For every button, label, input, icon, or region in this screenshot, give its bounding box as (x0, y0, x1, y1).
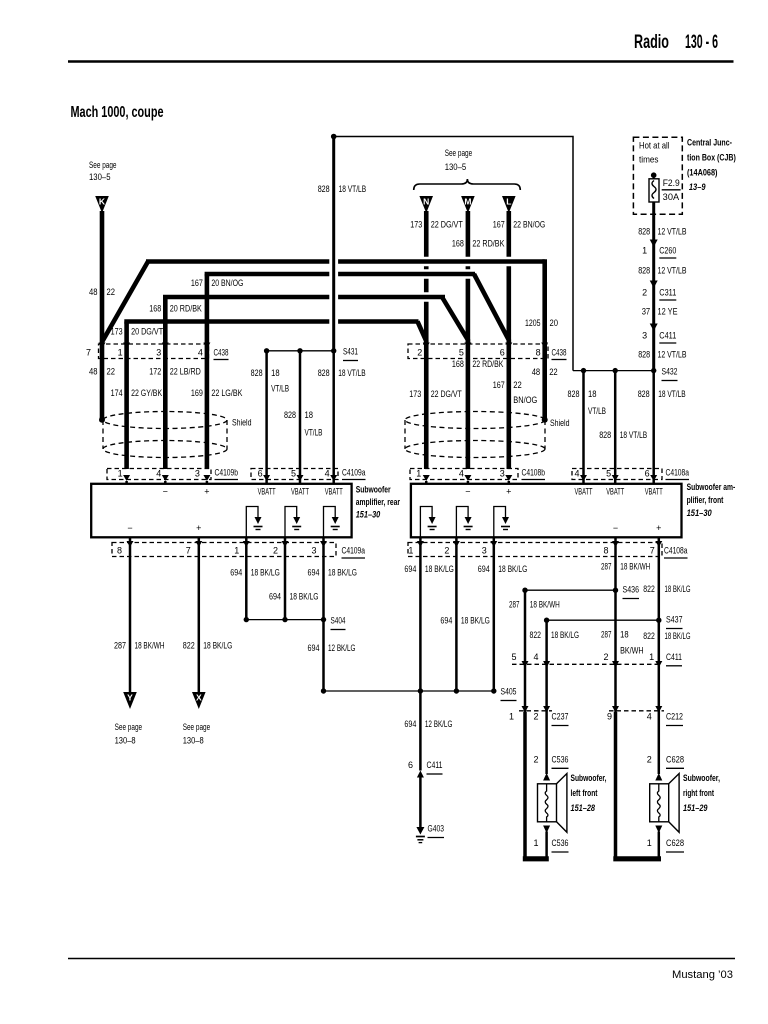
svg-text:3: 3 (195, 469, 200, 479)
svg-text:18: 18 (620, 630, 629, 640)
wire 694 12 BK/LG (S405 to G403) (404, 691, 452, 771)
svg-text:7: 7 (186, 546, 191, 556)
svg-text:12 VT/LB: 12 VT/LB (658, 350, 687, 360)
svg-text:1: 1 (416, 469, 421, 479)
svg-text:12 YE: 12 YE (658, 307, 678, 317)
wire 828 18 VT/LB (S432 to C4108a pin 6) (638, 371, 686, 481)
svg-text:18: 18 (305, 410, 314, 420)
amplifier front internal ground hook 3 (494, 507, 510, 538)
svg-text:18 BK/LG: 18 BK/LG (551, 630, 579, 640)
svg-text:3: 3 (642, 331, 647, 341)
svg-text:130–5: 130–5 (445, 162, 467, 172)
svg-text:C438: C438 (214, 348, 229, 358)
svg-text:130–8: 130–8 (183, 736, 204, 746)
svg-text:1: 1 (118, 469, 123, 479)
svg-text:287: 287 (601, 562, 612, 572)
connector C411 (ground leg) (408, 760, 443, 778)
wire 287 18 BK/WH (S436 to C411 pin 2) (601, 590, 644, 667)
svg-text:22 RD/BK: 22 RD/BK (472, 239, 504, 249)
svg-text:See page: See page (445, 148, 473, 158)
svg-text:2: 2 (444, 546, 449, 556)
svg-text:4: 4 (198, 348, 203, 358)
svg-text:18: 18 (271, 368, 280, 378)
svg-text:−: − (163, 487, 168, 497)
svg-text:VT/LB: VT/LB (271, 384, 289, 394)
svg-text:694: 694 (308, 643, 320, 653)
svg-text:Subwoofer am-: Subwoofer am- (687, 482, 736, 492)
ground G403 (416, 824, 444, 843)
svg-text:6: 6 (408, 760, 413, 770)
splice S405 (321, 687, 517, 701)
svg-text:2: 2 (417, 348, 422, 358)
svg-text:C536: C536 (552, 838, 569, 848)
svg-text:S431: S431 (343, 347, 358, 357)
svg-text:12 BK/LG: 12 BK/LG (328, 643, 356, 653)
svg-text:167: 167 (191, 278, 203, 288)
header title Radio 130-6 (634, 32, 718, 53)
svg-text:18 BK/WH: 18 BK/WH (135, 641, 165, 651)
wire bus C (168 20 RD/BK) (149, 297, 468, 344)
svg-text:6: 6 (258, 469, 263, 479)
connector C438 right box (408, 344, 567, 360)
svg-text:Mustang ’03: Mustang ’03 (672, 969, 733, 981)
shield right cylinder (405, 412, 570, 458)
svg-text:C411: C411 (659, 331, 676, 341)
svg-text:6: 6 (645, 469, 650, 479)
svg-text:3: 3 (500, 469, 505, 479)
wire 828 18 VT/LB (S431 to C4109a pin 5) (284, 351, 323, 481)
connector C628 pin 2 arrow (up) (655, 773, 662, 781)
wire 828 18 VT/LB main (to S431) (318, 137, 366, 351)
svg-text:828: 828 (638, 350, 650, 360)
svg-text:3: 3 (156, 348, 161, 358)
connector arrows into C4109b (123, 475, 210, 481)
connector arrow N (419, 196, 433, 213)
svg-text:C212: C212 (666, 712, 683, 722)
connector arrows into C4109a bottom (127, 541, 328, 547)
svg-text:+: + (196, 523, 201, 533)
connector C438 left box (86, 344, 229, 360)
wire 48 22 shield drain (left) (89, 344, 115, 422)
svg-text:20 BN/OG: 20 BN/OG (211, 278, 243, 288)
svg-text:20 RD/BK: 20 RD/BK (170, 304, 202, 314)
svg-text:C4109b: C4109b (215, 468, 239, 478)
svg-text:828: 828 (284, 410, 296, 420)
svg-text:C536: C536 (552, 755, 569, 765)
svg-text:130–8: 130–8 (115, 736, 136, 746)
wire 694 18 BK/LG (front pin 2 to S405) (440, 537, 490, 691)
svg-text:S437: S437 (666, 615, 683, 625)
svg-text:M: M (464, 197, 471, 207)
svg-text:828: 828 (638, 266, 650, 276)
svg-text:173: 173 (410, 220, 422, 230)
svg-text:18 VT/LB: 18 VT/LB (620, 430, 648, 440)
svg-text:+: + (506, 487, 511, 497)
svg-text:167: 167 (493, 380, 505, 390)
connector C212 (607, 706, 683, 726)
wire return loop left speaker (523, 712, 549, 861)
svg-text:X: X (196, 693, 202, 703)
op-amp box: subwoofer amplifier front (411, 484, 682, 538)
svg-text:−: − (613, 523, 618, 533)
connector C311 (642, 281, 676, 301)
svg-text:VBATT: VBATT (258, 487, 276, 497)
svg-text:C4109a: C4109a (342, 468, 366, 478)
svg-text:1: 1 (642, 246, 647, 256)
svg-text:plifier, front: plifier, front (687, 495, 724, 505)
amplifier front internal ground hook 2 (456, 507, 472, 538)
connector C628 pin 1 arrow (down) (647, 826, 684, 853)
wire 694 18 BK/LG (front pin 1 to S405) (404, 537, 454, 691)
connector C4108b box (410, 468, 545, 480)
svg-text:G403: G403 (428, 824, 445, 834)
svg-text:2: 2 (603, 652, 608, 662)
svg-text:1205: 1205 (525, 318, 541, 328)
svg-text:151–30: 151–30 (356, 510, 381, 520)
svg-text:+: + (656, 523, 661, 533)
connector C4109a box (bottom) (112, 543, 365, 559)
svg-text:30A: 30A (663, 192, 679, 202)
svg-text:151–29: 151–29 (683, 803, 708, 813)
wire 287 18 BK/WH (pin 8 to Y) (114, 537, 165, 694)
svg-text:828: 828 (251, 368, 263, 378)
svg-text:48: 48 (89, 367, 98, 377)
see page 130-5 label (center) (445, 148, 473, 172)
svg-text:22 LB/RD: 22 LB/RD (170, 367, 201, 377)
svg-text:18 BK/LG: 18 BK/LG (665, 631, 691, 641)
wire 822 18 BK/LG (front pin 7 to S437) (643, 537, 690, 620)
svg-text:828: 828 (638, 389, 650, 399)
svg-text:2: 2 (533, 712, 538, 722)
svg-text:times: times (639, 155, 659, 165)
wire 828 18 VT/LB (S431 to C4109a pin 6) (251, 351, 290, 481)
splice S404 (244, 616, 346, 630)
svg-text:8: 8 (117, 546, 122, 556)
svg-text:−: − (465, 487, 470, 497)
caption subwoofer amplifier front (687, 482, 736, 518)
connector C536 pin 1 arrow (down) (533, 826, 568, 853)
connector arrow L (502, 196, 516, 213)
svg-text:22: 22 (549, 367, 558, 377)
Central Junction Box dashed box (633, 137, 682, 214)
connector C411 row (amp outputs) (511, 652, 682, 666)
wire bus A diagonal (pin7 to bus) (102, 262, 148, 343)
svg-text:8: 8 (603, 546, 608, 556)
caption subwoofer left front (571, 773, 607, 813)
svg-text:4: 4 (459, 469, 464, 479)
svg-text:12 BK/LG: 12 BK/LG (425, 719, 453, 729)
svg-text:18 BK/LG: 18 BK/LG (665, 584, 691, 594)
svg-text:694: 694 (269, 592, 281, 602)
svg-text:12 VT/LB: 12 VT/LB (658, 227, 687, 237)
svg-text:Y: Y (127, 693, 133, 703)
svg-text:22: 22 (107, 367, 116, 377)
CJB caption (687, 138, 736, 193)
svg-text:F2.9: F2.9 (663, 178, 680, 188)
wire 167 22 BN/OG (L to C438-right pin 6) (493, 211, 546, 344)
svg-text:Subwoofer: Subwoofer (356, 485, 391, 495)
splice S431 (264, 347, 358, 361)
svg-text:6: 6 (500, 348, 505, 358)
svg-text:18 BK/LG: 18 BK/LG (290, 592, 319, 602)
amplifier rear internal ground hook 3 (324, 507, 340, 538)
svg-text:22 DG/VT: 22 DG/VT (431, 389, 462, 399)
svg-text:5: 5 (459, 348, 464, 358)
amplifier rear internal ground hook 2 (285, 507, 301, 538)
wire 169 22 LG/BK (191, 344, 243, 469)
svg-text:VBATT: VBATT (606, 487, 624, 497)
svg-text:BK/WH: BK/WH (620, 646, 644, 656)
connector C411 (CJB chain) (642, 324, 676, 344)
node junction at top of 828 wire (331, 134, 337, 140)
svg-text:VBATT: VBATT (325, 487, 343, 497)
svg-text:C411: C411 (427, 760, 443, 770)
svg-text:left front: left front (571, 788, 598, 798)
wire 168 22 RD/BK (M to C438-right pin 5) (452, 211, 505, 344)
svg-text:VBATT: VBATT (291, 487, 309, 497)
wire 694 18 BK/LG (front pin 3 to S405) (478, 537, 528, 691)
svg-text:C628: C628 (666, 838, 684, 848)
svg-text:BN/OG: BN/OG (513, 395, 537, 405)
footer rule (68, 958, 735, 960)
svg-text:172: 172 (149, 367, 161, 377)
svg-text:5: 5 (291, 469, 296, 479)
svg-text:Shield: Shield (550, 418, 570, 428)
svg-text:4: 4 (574, 469, 579, 479)
wire 694 18 BK/LG (rear pin 1 to S404) (230, 537, 279, 620)
wire (C411 to G403) (419, 776, 422, 827)
connector arrow X (183, 692, 211, 746)
svg-text:18 BK/WH: 18 BK/WH (620, 562, 650, 572)
shield left cylinder (99, 412, 252, 458)
svg-text:Radio: Radio (634, 32, 669, 53)
speaker subwoofer right front (650, 774, 679, 833)
splice S432 (573, 367, 678, 381)
svg-text:828: 828 (318, 184, 330, 194)
svg-text:18 VT/LB: 18 VT/LB (339, 184, 367, 194)
connector arrows into C438 right (423, 343, 548, 349)
splice S436 (522, 585, 639, 599)
svg-text:2: 2 (273, 546, 278, 556)
svg-text:See page: See page (89, 160, 117, 170)
svg-text:2: 2 (642, 288, 647, 298)
svg-text:22 RD/BK: 22 RD/BK (472, 359, 503, 369)
svg-text:18 BK/LG: 18 BK/LG (203, 641, 232, 651)
node K see-page label (89, 160, 117, 182)
svg-text:4: 4 (533, 652, 538, 662)
svg-text:1: 1 (234, 546, 239, 556)
svg-text:Hot at all: Hot at all (639, 141, 670, 151)
svg-text:VBATT: VBATT (575, 487, 593, 497)
svg-text:18 BK/LG: 18 BK/LG (461, 616, 490, 626)
svg-text:167: 167 (493, 220, 505, 230)
svg-text:5: 5 (606, 469, 611, 479)
svg-text:1: 1 (118, 348, 123, 358)
svg-text:48: 48 (89, 287, 98, 297)
wire right speaker feed + (C411 pin 2 down) (614, 667, 617, 712)
svg-text:174: 174 (111, 388, 123, 398)
svg-text:S436: S436 (623, 585, 640, 595)
connector C260 (642, 240, 676, 259)
svg-text:694: 694 (404, 719, 416, 729)
svg-text:C237: C237 (552, 712, 569, 722)
svg-text:828: 828 (568, 389, 580, 399)
svg-text:C311: C311 (659, 288, 676, 298)
splice S437 (544, 615, 683, 629)
wire 37 12 YE (C311 to C411) (642, 288, 678, 331)
svg-text:Subwoofer,: Subwoofer, (571, 773, 607, 783)
svg-text:18 VT/LB: 18 VT/LB (338, 368, 366, 378)
fuse F2.9 30A (649, 172, 681, 214)
svg-text:4: 4 (156, 469, 161, 479)
wire 694 18 BK/LG (rear pin 2 to S404) (269, 537, 319, 620)
svg-text:VT/LB: VT/LB (588, 406, 606, 416)
wire bus A horizontal (circuit 1205) (146, 259, 329, 264)
svg-text:22: 22 (107, 287, 116, 297)
svg-text:VBATT: VBATT (645, 487, 663, 497)
svg-text:12 VT/LB: 12 VT/LB (658, 266, 687, 276)
svg-text:2: 2 (533, 755, 538, 765)
speaker subwoofer left front (538, 774, 567, 833)
svg-text:822: 822 (643, 631, 655, 641)
svg-text:694: 694 (308, 568, 320, 578)
connector arrows through C411 row (522, 661, 663, 668)
wire 48 22 shield drain (right) (532, 344, 558, 422)
op-amp box: subwoofer amplifier rear (91, 484, 351, 538)
wire 287 18 BK/WH (front pin 8 to S436) (601, 537, 650, 590)
caption subwoofer amplifier rear (356, 485, 401, 520)
wire 48 22 (K to C438-left pin 7) (89, 211, 115, 344)
svg-text:18 BK/LG: 18 BK/LG (328, 568, 357, 578)
wire 168 22 RD/BK (below C438-right) (452, 344, 504, 469)
svg-text:18: 18 (588, 389, 597, 399)
svg-text:1: 1 (649, 652, 654, 662)
svg-text:18 BK/WH: 18 BK/WH (530, 600, 560, 610)
svg-text:7: 7 (86, 348, 91, 358)
header rule (68, 60, 734, 62)
wire 828 18 VT/LB (S431 to C4109a pin 4) (318, 351, 366, 481)
wire 822 18 BK/LG (pin 7 to X) (183, 537, 233, 694)
svg-text:Central Junc-: Central Junc- (687, 138, 732, 148)
svg-text:S405: S405 (501, 687, 517, 697)
svg-text:18 BK/LG: 18 BK/LG (498, 564, 527, 574)
svg-text:22 LG/BK: 22 LG/BK (211, 388, 242, 398)
svg-text:22: 22 (513, 380, 522, 390)
brace over N M L (414, 179, 521, 190)
svg-text:See page: See page (183, 722, 211, 732)
wire 828 18 VT/LB (S432 to C4108a pin 5) (599, 371, 647, 481)
svg-text:22 BN/OG: 22 BN/OG (513, 220, 545, 230)
svg-text:S404: S404 (331, 616, 346, 626)
svg-text:C411: C411 (666, 652, 682, 662)
connector C4108a box (bottom) (408, 543, 688, 559)
wire 167 22 BN/OG (below C438-right) (493, 344, 538, 469)
wire 828 12 VT/LB (CJB to C260) (638, 214, 686, 246)
connector C536 pin 2 arrow (up) (543, 773, 550, 781)
svg-text:694: 694 (230, 568, 242, 578)
wire link S431 to S432 (top thin line) (334, 137, 573, 371)
caption subwoofer right front (683, 773, 720, 813)
svg-text:C4108a: C4108a (666, 468, 690, 478)
svg-text:130–5: 130–5 (89, 172, 111, 182)
connector arrow Y (115, 692, 143, 746)
svg-text:173: 173 (409, 389, 421, 399)
svg-text:822: 822 (183, 641, 195, 651)
svg-text:20: 20 (550, 318, 559, 328)
svg-text:1: 1 (408, 546, 413, 556)
wire 173 22 DG/VT (N to C438-right pin 2) (410, 211, 463, 344)
svg-text:828: 828 (638, 227, 650, 237)
wire 822 18 BK/LG (S437 to C411 pin 4) (530, 620, 580, 667)
svg-text:168: 168 (452, 359, 464, 369)
wire return loop right speaker (613, 712, 661, 861)
wire 828 12 VT/LB (C411 to S432) (638, 331, 686, 371)
svg-text:C438: C438 (552, 348, 567, 358)
svg-text:8: 8 (536, 348, 541, 358)
wire 173 22 DG/VT (below C438-right) (409, 344, 462, 469)
svg-text:822: 822 (643, 584, 655, 594)
svg-text:694: 694 (404, 564, 416, 574)
svg-text:48: 48 (532, 367, 541, 377)
svg-text:1: 1 (533, 838, 538, 848)
wire 828 12 VT/LB (C260 to C311) (638, 247, 686, 288)
svg-text:287: 287 (114, 641, 126, 651)
svg-text:5: 5 (511, 652, 516, 662)
connector C237 (509, 706, 569, 726)
svg-text:right front: right front (683, 788, 714, 798)
svg-text:20 DG/VT: 20 DG/VT (131, 327, 163, 337)
connector arrow K (95, 196, 109, 213)
svg-text:130 - 6: 130 - 6 (685, 32, 718, 53)
svg-text:C4108a: C4108a (664, 546, 688, 556)
svg-text:C4108b: C4108b (522, 468, 546, 478)
wire 174 22 GY/BK (111, 344, 163, 469)
wire 287 18 BK/WH (S436 to C411 pin 5) (509, 590, 560, 667)
svg-text:18 BK/LG: 18 BK/LG (425, 564, 454, 574)
svg-text:Shield: Shield (232, 418, 252, 428)
svg-text:37: 37 (642, 307, 651, 317)
svg-text:173: 173 (111, 327, 123, 337)
svg-text:151–30: 151–30 (687, 508, 712, 518)
svg-text:VT/LB: VT/LB (305, 428, 323, 438)
svg-text:3: 3 (482, 546, 487, 556)
svg-text:S432: S432 (662, 367, 678, 377)
wire bus A right drop to C438-right pin 8 (525, 259, 558, 344)
wire (C212 to subwoofer RF, + side) (647, 712, 684, 774)
svg-text:828: 828 (318, 368, 330, 378)
connector C4108a box (top) (572, 468, 689, 480)
svg-text:Subwoofer,: Subwoofer, (683, 773, 720, 783)
svg-text:+: + (204, 487, 209, 497)
wire 694 18 BK/LG (rear pin 3 to S404) (308, 537, 358, 620)
svg-text:828: 828 (599, 430, 611, 440)
connector arrows into C438 left (99, 343, 211, 349)
svg-text:See page: See page (115, 722, 143, 732)
svg-text:13–9: 13–9 (689, 182, 706, 192)
svg-text:7: 7 (650, 546, 655, 556)
svg-text:287: 287 (509, 600, 520, 610)
wire bus D (173 20 DG/VT) (111, 322, 427, 345)
svg-text:287: 287 (601, 630, 612, 640)
wire left speaker feed + (C411 pin 5 down) (524, 667, 527, 712)
svg-text:K: K (99, 197, 106, 207)
amplifier front internal ground hook 1 (420, 507, 436, 538)
svg-text:L: L (506, 197, 511, 207)
svg-text:Mach 1000, coupe: Mach 1000, coupe (71, 104, 164, 121)
wire stubs through C4109b into amp (127, 481, 654, 484)
svg-text:4: 4 (325, 469, 330, 479)
svg-text:168: 168 (149, 304, 161, 314)
